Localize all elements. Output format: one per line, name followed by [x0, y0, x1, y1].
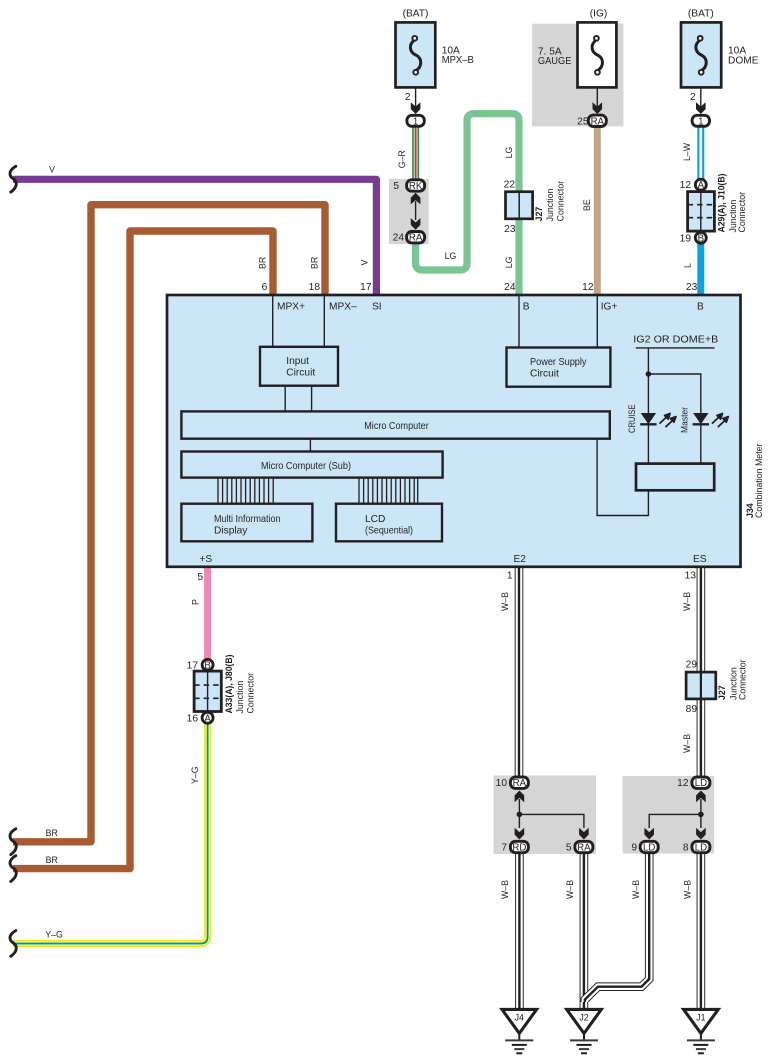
ground J1	[684, 1009, 719, 1053]
svg-text:IG2 OR DOME+B: IG2 OR DOME+B	[633, 335, 718, 346]
arrow into oval RA (25)	[593, 102, 603, 114]
svg-text:G–R: G–R	[397, 150, 407, 168]
micro computer box	[181, 411, 609, 438]
svg-text:LG: LG	[504, 256, 514, 268]
svg-text:1: 1	[413, 116, 418, 127]
power supply circuit box	[507, 348, 611, 387]
svg-text:LG: LG	[504, 147, 514, 159]
wire W-B from pin ES to J27 connector	[697, 565, 706, 673]
svg-text:CRUISE: CRUISE	[627, 404, 637, 433]
splice oval LD pin 8	[692, 841, 710, 853]
internal lead MPX+ to input circuit	[272, 296, 274, 347]
svg-text:Connector: Connector	[245, 673, 255, 714]
svg-text:23: 23	[686, 282, 698, 293]
wire LG loop from splice RA(24) up and over to pin 24 B	[416, 114, 519, 297]
LED CRUISE	[640, 413, 676, 427]
break symbol at wire BR outer	[10, 829, 16, 855]
label A29(A), J10(B) Junction Connector	[717, 173, 748, 232]
break symbol at wire V	[10, 166, 16, 192]
label J34 / Combination Meter (rotated)	[745, 443, 764, 518]
label A33(A), J80(B) Junction Connector	[224, 654, 255, 713]
bus line under IG2 OR DOME+B	[636, 347, 715, 349]
arrow down to LD(8)	[696, 828, 706, 840]
svg-text:24: 24	[504, 282, 516, 293]
svg-text:LD: LD	[643, 843, 655, 854]
wire BR outer: left break, down left side, to pin 18 MPX-	[13, 205, 325, 842]
svg-text:GAUGE: GAUGE	[538, 56, 572, 67]
arrow down to RD(7)	[515, 828, 525, 840]
svg-text:Micro Computer (Sub): Micro Computer (Sub)	[261, 461, 351, 472]
svg-text:ES: ES	[693, 554, 707, 565]
label J27 Junction Connector (top)	[534, 181, 565, 222]
svg-text:10: 10	[496, 778, 508, 789]
arrow down to RA	[411, 218, 421, 230]
svg-text:12: 12	[680, 180, 692, 191]
svg-text:W–B: W–B	[565, 880, 575, 899]
svg-text:W–B: W–B	[683, 880, 693, 899]
arrow up to RA(10)	[515, 791, 525, 803]
lead from fuse MPX-B	[415, 87, 417, 107]
leads LEDs to resistor box	[647, 424, 649, 463]
arrow into oval 1 (MPX-B)	[411, 102, 421, 114]
svg-text:5: 5	[393, 181, 399, 192]
wire BE from RA(25) to pin 12 IG+	[594, 124, 601, 297]
lead from fuse GAUGE	[596, 87, 598, 107]
wire BR inner: left break, to pin 6 MPX+	[13, 231, 273, 869]
wire W-B from pin E2 to splice RA(10)	[515, 565, 524, 777]
svg-text:RA: RA	[513, 778, 527, 789]
svg-text:6: 6	[262, 282, 268, 293]
svg-text:L: L	[683, 263, 693, 268]
junction block shield box (IG fuse)	[532, 24, 623, 127]
junction connector A29 circle B pin 19	[695, 232, 706, 244]
svg-text:19: 19	[680, 233, 692, 244]
svg-text:Display: Display	[214, 526, 248, 537]
svg-text:W–B: W–B	[631, 880, 641, 899]
svg-text:W–B: W–B	[682, 734, 692, 753]
svg-text:RK: RK	[409, 181, 423, 192]
svg-text:24: 24	[393, 233, 405, 244]
svg-text:BR: BR	[46, 828, 58, 838]
svg-text:B: B	[698, 233, 704, 244]
svg-text:8: 8	[683, 843, 689, 854]
ribbon hatch to multi information display	[218, 478, 273, 504]
svg-text:5: 5	[197, 572, 203, 583]
junction connector J27 (22/23) box	[506, 192, 533, 219]
wire W-B from J27 to splice LD(12)	[697, 700, 706, 777]
oval terminal 1 (DOME)	[692, 115, 709, 127]
svg-text:Connector: Connector	[737, 192, 747, 233]
svg-text:(BAT): (BAT)	[688, 9, 714, 20]
svg-text:+S: +S	[199, 554, 212, 565]
splice oval LD pin 9	[640, 841, 658, 853]
splice link line RK-RA	[415, 201, 417, 220]
LED Master	[693, 413, 729, 427]
internal lead MPX- to input circuit	[323, 296, 325, 347]
splice node dot (left)	[517, 812, 523, 818]
svg-text:18: 18	[309, 282, 321, 293]
svg-text:29: 29	[686, 660, 698, 671]
svg-text:BR: BR	[46, 855, 58, 865]
fuse GAUGE box	[578, 22, 617, 87]
svg-text:2: 2	[690, 92, 696, 103]
wire L-W from fuse oval to circle A	[697, 124, 704, 183]
oval terminal RK pin 5	[407, 180, 425, 192]
svg-text:MPX+: MPX+	[277, 302, 305, 313]
svg-text:IG+: IG+	[601, 302, 618, 313]
combination meter J34 box	[167, 295, 741, 567]
svg-text:L–W: L–W	[682, 142, 692, 161]
svg-text:B: B	[697, 302, 704, 313]
svg-text:BE: BE	[582, 199, 592, 211]
splice node dot (right)	[698, 812, 704, 818]
svg-text:B: B	[523, 302, 530, 313]
label J27 Junction Connector (bottom)	[717, 659, 748, 700]
driver box	[636, 464, 714, 491]
wire W-B from splice LD(8) to ground J1	[697, 852, 706, 1010]
svg-text:25: 25	[577, 117, 589, 128]
svg-text:Circuit: Circuit	[286, 368, 315, 379]
svg-text:Multi Information: Multi Information	[214, 514, 281, 525]
svg-text:(BAT): (BAT)	[403, 9, 429, 20]
arrow down to LD(9)	[644, 828, 654, 840]
svg-text:1: 1	[507, 571, 513, 582]
input circuit box	[260, 347, 338, 386]
svg-text:1: 1	[698, 116, 703, 127]
junction connector A33 circle B pin 17	[202, 659, 213, 671]
wire W-B from splice LD(9) merging into J2 wire	[585, 852, 649, 1002]
svg-text:12: 12	[677, 778, 689, 789]
svg-text:2: 2	[405, 92, 411, 103]
internal leads input circuit to micro computer	[284, 386, 286, 412]
oval terminal RA pin 24	[407, 232, 425, 244]
svg-text:Input: Input	[286, 356, 309, 367]
svg-text:MPX–B: MPX–B	[442, 55, 474, 66]
micro computer (sub) box	[181, 452, 442, 478]
ribbon hatch to LCD	[359, 478, 418, 504]
svg-text:BR: BR	[258, 257, 268, 269]
svg-text:Connector: Connector	[738, 659, 748, 700]
lead from fuse DOME	[700, 87, 702, 107]
svg-text:22: 22	[504, 179, 516, 190]
splice oval LD pin 12	[692, 777, 710, 789]
svg-text:Y–G: Y–G	[190, 766, 200, 784]
svg-text:Y–G: Y–G	[45, 930, 63, 940]
junction connector A33 circle A pin 16	[202, 712, 213, 724]
svg-text:A: A	[204, 713, 211, 724]
arrow into oval 1 (DOME)	[696, 102, 706, 114]
svg-text:Junction: Junction	[235, 681, 245, 714]
internal lead B pin24 to power supply	[518, 296, 520, 347]
splice link LD12 to node	[700, 799, 702, 814]
svg-text:LD: LD	[695, 778, 707, 789]
svg-text:Connector: Connector	[555, 181, 565, 222]
svg-text:J1: J1	[696, 1013, 705, 1023]
lead driver box to micro computer	[597, 439, 648, 516]
svg-text:V: V	[360, 260, 370, 266]
splice oval RA pin 5	[575, 841, 593, 853]
splice shield box S3 (LD/LD/LD)	[623, 776, 715, 854]
fuse MPX-B box	[396, 22, 436, 87]
svg-text:Junction: Junction	[545, 189, 555, 222]
svg-text:(Sequential): (Sequential)	[365, 526, 413, 537]
svg-text:LG: LG	[445, 251, 457, 261]
wire V (violet) from left break to pin 17 SI	[13, 179, 376, 296]
splice shield box S1 (RK/RA)	[389, 179, 429, 244]
arrow up to LD(12)	[696, 791, 706, 803]
splice link RA10 to node	[518, 799, 520, 814]
svg-text:E2: E2	[514, 554, 527, 565]
svg-text:16: 16	[187, 713, 199, 724]
splice shield box S2 (RA/RD/RA)	[494, 775, 596, 854]
lead from bus to junction	[647, 348, 649, 413]
svg-text:Micro Computer: Micro Computer	[364, 421, 429, 432]
svg-text:J4: J4	[515, 1013, 524, 1023]
svg-text:89: 89	[686, 704, 698, 715]
svg-text:W–B: W–B	[500, 880, 510, 899]
svg-text:V: V	[49, 165, 55, 175]
junction connector J27 (29/89) box	[686, 672, 716, 699]
oval terminal RA pin 25	[588, 115, 606, 127]
arrow down to RA(5)	[579, 828, 589, 840]
wire L from circle B to pin 23 B	[697, 242, 704, 297]
svg-text:W–B: W–B	[682, 592, 692, 611]
wire P from pin 5 +S to circle B of A33	[204, 565, 211, 662]
svg-text:23: 23	[504, 224, 516, 235]
svg-text:RA: RA	[409, 233, 423, 244]
svg-text:P: P	[191, 599, 201, 605]
svg-text:W–B: W–B	[500, 592, 510, 611]
svg-text:Master: Master	[680, 407, 690, 433]
svg-text:BR: BR	[310, 257, 320, 269]
svg-text:LCD: LCD	[365, 514, 385, 525]
svg-text:9: 9	[631, 843, 637, 854]
branch to master LED	[648, 374, 700, 413]
svg-text:J27: J27	[717, 685, 727, 700]
svg-text:SI: SI	[372, 302, 382, 313]
ground J2	[567, 1009, 602, 1053]
fuse DOME box	[681, 22, 721, 87]
svg-text:J2: J2	[579, 1013, 588, 1023]
svg-text:MPX–: MPX–	[329, 302, 357, 313]
internal lead IG+ to power supply	[596, 296, 598, 347]
junction connector A29 box	[688, 192, 715, 232]
multi information display box	[181, 504, 312, 542]
svg-text:LD: LD	[695, 843, 707, 854]
svg-text:Combination Meter: Combination Meter	[754, 443, 764, 518]
svg-text:(IG): (IG)	[590, 9, 608, 20]
svg-text:7: 7	[501, 843, 507, 854]
wire G-R from fuse oval to splice RK	[412, 124, 419, 184]
oval terminal 1 (MPX-B)	[407, 115, 424, 127]
splice link node to RD(7)	[518, 814, 520, 828]
svg-text:13: 13	[685, 571, 697, 582]
svg-text:A: A	[698, 180, 705, 191]
svg-text:17: 17	[360, 282, 372, 293]
splice branch to RA(5)	[519, 814, 584, 828]
svg-text:J27: J27	[534, 207, 544, 222]
wire W-B from splice RA(5) to ground J2	[580, 852, 589, 1010]
svg-text:12: 12	[582, 282, 594, 293]
splice oval RA pin 10	[510, 777, 528, 789]
svg-text:Circuit: Circuit	[530, 369, 559, 380]
svg-text:A29(A), J10(B): A29(A), J10(B)	[717, 173, 727, 232]
wire Y-G from circle A of A33 down and left to break	[13, 721, 208, 944]
ground J4	[502, 1009, 537, 1053]
wire W-B from splice RD(7) to ground J4	[515, 852, 524, 1010]
svg-text:RA: RA	[577, 843, 591, 854]
svg-text:5: 5	[566, 843, 572, 854]
junction connector A29(A),J10(B) circle A pin 12	[695, 179, 706, 191]
LCD (sequential) box	[336, 504, 442, 542]
lead micro computer to sub	[309, 439, 311, 452]
svg-text:A33(A), J80(B): A33(A), J80(B)	[224, 654, 234, 713]
arrow up to RK	[411, 193, 421, 205]
break symbol at wire Y-G	[10, 931, 16, 957]
svg-text:RD: RD	[512, 843, 526, 854]
svg-text:DOME: DOME	[728, 55, 759, 66]
junction connector A33 box	[194, 671, 221, 711]
splice branch to LD(9)	[649, 814, 701, 828]
svg-text:RA: RA	[591, 116, 605, 127]
splice link node to LD(8)	[700, 814, 702, 828]
junction node dot	[646, 371, 652, 377]
svg-text:Power Supply: Power Supply	[530, 357, 587, 368]
break symbol at wire BR inner	[10, 856, 16, 882]
splice oval RD pin 7	[510, 841, 528, 853]
